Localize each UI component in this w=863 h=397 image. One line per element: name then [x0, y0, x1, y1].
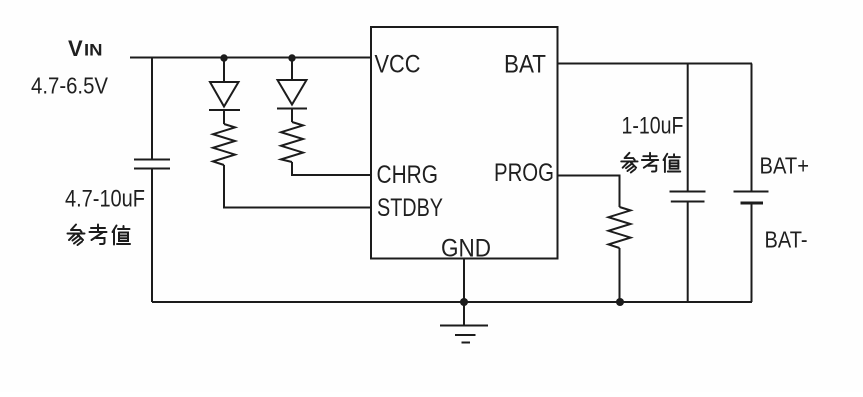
svg-text:GND: GND: [441, 235, 491, 263]
svg-text:V: V: [68, 36, 83, 61]
svg-text:BAT-: BAT-: [765, 227, 808, 253]
svg-text:BAT: BAT: [504, 51, 546, 79]
svg-text:VCC: VCC: [375, 51, 421, 79]
svg-text:PROG: PROG: [494, 159, 554, 187]
svg-text:STDBY: STDBY: [377, 194, 443, 222]
svg-text:4.7-10uF: 4.7-10uF: [65, 186, 145, 213]
svg-text:BAT+: BAT+: [760, 153, 810, 179]
svg-text:1-10uF: 1-10uF: [622, 113, 684, 140]
svg-text:IN: IN: [84, 40, 103, 59]
svg-text:4.7-6.5V: 4.7-6.5V: [31, 73, 109, 99]
svg-text:CHRG: CHRG: [377, 161, 439, 189]
